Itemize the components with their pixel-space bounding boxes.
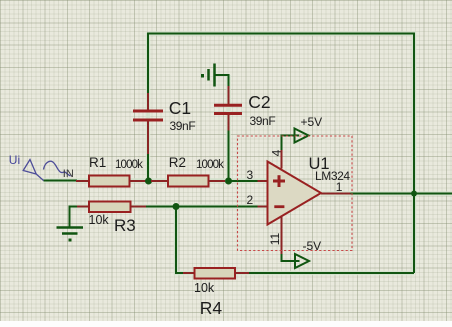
wire top feedback [148, 33, 414, 35]
label Ui [9, 154, 20, 166]
wire input to R1 [44, 180, 78, 182]
label U1 value LM324 [315, 170, 350, 182]
label C1 [169, 100, 191, 118]
label R4 value 10k [194, 282, 214, 295]
ground (top, rotated) [201, 64, 215, 87]
node B junction [225, 178, 232, 185]
wire R4 to right feedback [249, 272, 414, 274]
label IN [63, 169, 74, 180]
label R2 [169, 156, 186, 170]
label R2 value 1000k [196, 160, 223, 172]
ground (left of R3) [57, 207, 84, 242]
wire R3 to node C [146, 206, 176, 208]
op-amp U1 pin 2 lead [258, 206, 268, 208]
white bottom strip [0, 321, 452, 327]
label U1 [309, 156, 330, 173]
op-amp minus input mark [274, 205, 284, 208]
wire node C to pin 2 [176, 206, 258, 208]
wire ground to R3 [69, 206, 78, 208]
label R1 [89, 156, 106, 170]
label R3 value 10k [89, 214, 109, 227]
node A junction [145, 178, 152, 185]
wire C1 top [147, 33, 149, 94]
resistor R2 [151, 176, 225, 187]
label R4 [200, 300, 222, 318]
wire node B to pin 3 [229, 180, 258, 182]
label R3 [114, 217, 136, 234]
resistor R4 [183, 268, 249, 279]
wire C2 bottom to node B [228, 131, 230, 182]
pin number 11 (rotated) [269, 233, 281, 245]
label +5V [301, 116, 323, 128]
label C2 [248, 94, 270, 112]
op-amp pin 4 lead [281, 150, 283, 169]
wire right vertical feedback [413, 33, 415, 274]
resistor R1 [76, 176, 147, 187]
pin number 4 (rotated) [270, 149, 282, 156]
op-amp plus input mark [273, 175, 285, 187]
label -5V [303, 240, 322, 252]
resistor R3 [77, 202, 146, 213]
wire node C down to R4 [176, 207, 183, 274]
wire C2 top to ground [215, 75, 229, 86]
node C junction [173, 203, 180, 210]
input source symbol [23, 160, 70, 181]
node D junction output [411, 191, 417, 197]
pin number 2 [247, 194, 254, 206]
capacitor C1 [133, 93, 163, 154]
label C1 value 39nF [170, 120, 196, 132]
op-amp U1 body [268, 162, 322, 225]
wire output to right edge [351, 193, 452, 195]
wire +5V to pin 4 [282, 136, 300, 151]
wire pin 11 to -5V [282, 254, 300, 261]
power +5V arrow [295, 129, 309, 143]
label C2 value 39nF [250, 115, 276, 127]
label R1 value 1000k [115, 160, 142, 172]
selection dashed box around U1 [238, 136, 353, 251]
op-amp pin 11 lead [281, 217, 283, 255]
pin number 3 [247, 169, 254, 181]
power -5V arrow [295, 254, 309, 268]
op-amp U1 pin 3 lead [258, 180, 268, 182]
capacitor C2 [214, 86, 242, 131]
wire C1 bottom to node A [147, 154, 149, 181]
wire halos (anti-alias tint) [44, 33, 452, 274]
op-amp U1 pin 1 output lead [321, 193, 351, 195]
pin number 1 [336, 181, 343, 193]
